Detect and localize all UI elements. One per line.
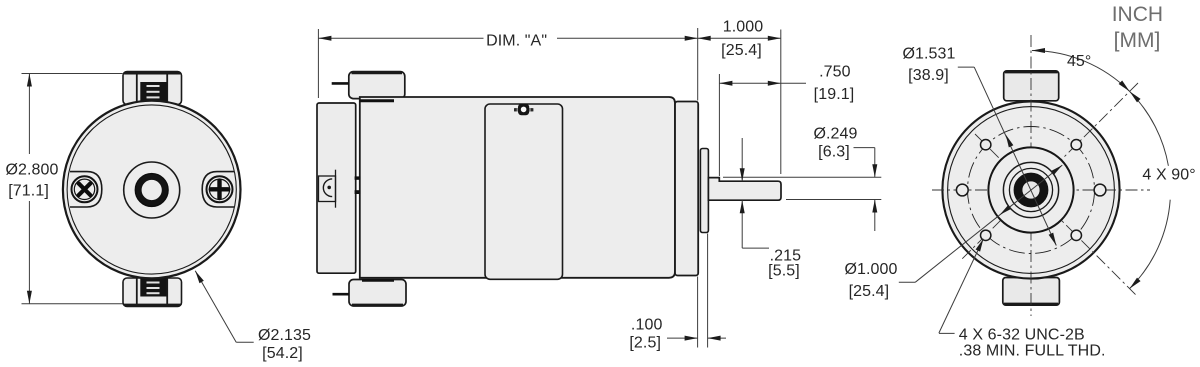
svg-text:[19.1]: [19.1]	[814, 86, 855, 103]
NW-SE diagonal centerline	[975, 134, 1137, 296]
dimension .100 lines/arrows	[667, 337, 698, 339]
svg-text:Ø2.135: Ø2.135	[258, 327, 311, 344]
svg-text:4 X 6-32 UNC-2B: 4 X 6-32 UNC-2B	[959, 326, 1085, 343]
motor outer circle (front)	[942, 101, 1119, 278]
svg-text:Ø1.531: Ø1.531	[902, 46, 955, 63]
top lead wire	[332, 82, 349, 85]
bearing circle	[1003, 162, 1058, 217]
hole left	[956, 184, 968, 196]
inner rim circle	[67, 105, 236, 274]
svg-text:Ø.249: Ø.249	[813, 125, 857, 142]
front end plate	[675, 102, 698, 276]
extension line at shaft tip	[780, 30, 782, 175]
inner rim circle (front)	[948, 107, 1115, 274]
svg-text:[2.5]: [2.5]	[629, 335, 661, 352]
svg-text:.100: .100	[631, 317, 663, 334]
dimension D1.531 leader/line	[958, 66, 974, 68]
dimension D.249 lines/arrows	[854, 147, 875, 149]
shaft bore dark ring	[139, 177, 165, 203]
rear bearing boss box	[319, 176, 336, 202]
svg-text:Ø1.000: Ø1.000	[844, 261, 897, 278]
svg-text:DIM. "A": DIM. "A"	[486, 33, 547, 50]
vent detail on band	[515, 108, 533, 112]
motor body	[360, 97, 675, 278]
svg-text:Ø2.800: Ø2.800	[5, 162, 58, 179]
left screw boss	[70, 172, 102, 207]
rear bearing arc	[323, 179, 332, 197]
rear bearing vertical line	[335, 170, 337, 208]
horizontal centerline	[932, 189, 1150, 191]
svg-text:[71.1]: [71.1]	[8, 183, 49, 200]
terminal notch upper	[355, 176, 361, 179]
dimension .215 lines/arrows	[741, 138, 743, 181]
left screw (X slot)	[72, 176, 98, 202]
dimension D2.800 extension lines	[22, 73, 123, 75]
extension line at shaft step	[718, 74, 720, 176]
hole upper-left	[981, 140, 991, 150]
svg-text:1.000: 1.000	[723, 18, 764, 35]
shaft with flat	[708, 178, 781, 201]
svg-text:INCH: INCH	[1112, 3, 1163, 26]
right screw (+ slot)	[207, 176, 233, 202]
bottom brush cap tab	[123, 278, 182, 307]
45 degree arc dimension	[1032, 51, 1130, 92]
thread callout leader	[939, 239, 984, 333]
svg-text:[6.3]: [6.3]	[818, 144, 850, 161]
top brush cap tab	[123, 72, 182, 105]
svg-text:[25.4]: [25.4]	[721, 42, 762, 59]
top mounting tab	[1004, 71, 1059, 101]
hole right	[1094, 184, 1106, 196]
body band	[485, 104, 563, 279]
rear end cap	[317, 103, 356, 273]
dimension D.249 extension lines	[723, 176, 881, 178]
motor outer circle	[63, 101, 241, 279]
bottom brush cap (side)	[349, 280, 406, 307]
shaft bore dark ring (front)	[1018, 177, 1044, 203]
NE-SW diagonal centerline	[962, 83, 1138, 259]
center hub outer circle	[124, 162, 180, 218]
svg-text:[MM]: [MM]	[1114, 29, 1161, 52]
front bearing boss	[700, 149, 708, 233]
svg-text:45°: 45°	[1067, 53, 1092, 70]
right screw boss	[202, 172, 234, 207]
vertical centerline	[1030, 35, 1032, 316]
svg-text:4 X 90°: 4 X 90°	[1142, 167, 1195, 184]
shared extension line at front face	[697, 28, 699, 101]
svg-text:.38 MIN. FULL THD.: .38 MIN. FULL THD.	[959, 343, 1106, 360]
4 X 90 arc dimension	[1130, 91, 1169, 165]
bottom lead wire	[333, 293, 350, 296]
svg-text:[25.4]: [25.4]	[849, 283, 890, 300]
hole upper-right	[1071, 140, 1081, 150]
top brush cap (side)	[349, 72, 405, 99]
bolt circle (dash-dot)	[968, 127, 1095, 254]
svg-text:[54.2]: [54.2]	[262, 345, 303, 362]
bearing inner circle	[1009, 168, 1052, 211]
dimension .750 line	[719, 82, 806, 84]
hole lower-right	[1071, 230, 1081, 240]
bottom mounting tab	[1003, 278, 1060, 306]
dimension .100 extension lines	[697, 277, 699, 348]
DIM A dimension line	[318, 37, 483, 39]
leader D2.135	[195, 271, 236, 343]
dimension D2.800 dimension line	[28, 74, 30, 155]
hole lower-left	[981, 230, 991, 240]
dimension D1.000 leader/line	[899, 281, 915, 283]
cap joint seam	[360, 99, 395, 102]
svg-text:[5.5]: [5.5]	[768, 263, 800, 280]
DIM A extension line left	[317, 29, 319, 98]
dimension 1.000 line	[698, 37, 781, 39]
svg-text:.750: .750	[819, 64, 851, 81]
pilot boss circle	[988, 147, 1073, 232]
terminal notch lower	[355, 190, 361, 194]
svg-text:[38.9]: [38.9]	[908, 67, 949, 84]
